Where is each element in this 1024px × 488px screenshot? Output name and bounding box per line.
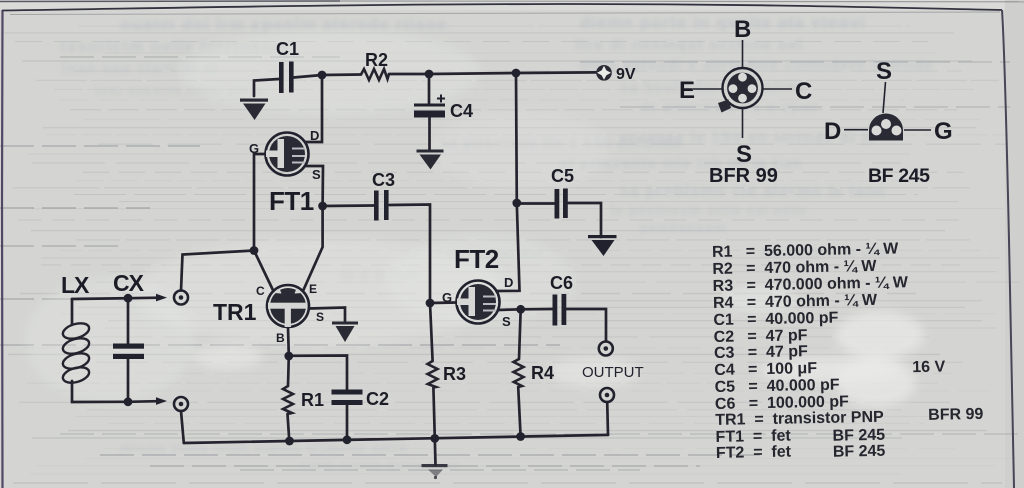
wire: C3 right to corner down to node F (390, 205, 431, 304)
rail junction at R1 (285, 437, 294, 446)
node CX top junction (124, 294, 133, 303)
wire: input top terminal up to node G (181, 251, 254, 291)
capacitor C6 (553, 294, 567, 326)
wire: FT1 gate left then down (254, 154, 266, 250)
capacitor C1 (279, 62, 294, 94)
inductor LX (61, 321, 91, 386)
whiteout patches (25, 30, 924, 407)
rail junction at C2 (343, 435, 352, 444)
node F junction (426, 299, 435, 308)
ground at C5 (588, 235, 617, 256)
wire: node E down to TR1 emitter (303, 206, 323, 291)
fet FT1 (266, 133, 309, 176)
svg-text:D: D (504, 275, 513, 290)
svg-text:C1: C1 (276, 39, 299, 59)
wire: node A to R2 left (322, 73, 361, 76)
resistor R4 (514, 359, 524, 387)
svg-text:CX: CX (113, 270, 145, 296)
capacitor CX (113, 344, 144, 360)
wire: node F down through R3 to rail and ground stub (430, 303, 433, 361)
svg-text:G: G (442, 290, 452, 305)
rail junction at R3 (430, 434, 439, 443)
resistor R3 (428, 361, 438, 388)
wire: LX left leg (71, 299, 74, 324)
svg-text:E: E (309, 282, 317, 296)
arrow to input top terminal (156, 294, 167, 302)
BF245 pinout (844, 82, 931, 130)
wire: LX bottom leg (72, 381, 158, 402)
BFR99 pinout (693, 40, 792, 138)
wire: C6 right to output corner (567, 309, 607, 341)
svg-text:C: C (256, 284, 265, 298)
svg-text:G: G (934, 118, 953, 145)
wire: output bottom terminal to rail (606, 402, 609, 435)
node E junction (318, 202, 327, 211)
wire: node D to C5 left (517, 202, 555, 205)
wire: R1 bottom to rail (288, 414, 290, 441)
svg-text:B: B (734, 16, 751, 43)
svg-text:FT2 = fet: FT2 = fet (716, 444, 792, 462)
input terminal bottom (174, 397, 188, 411)
arrow to input bottom terminal (156, 397, 167, 405)
wire: node A down to FT1 drain (305, 75, 322, 142)
wire: LX CX top wire with arrow (72, 298, 158, 299)
svg-text:E: E (679, 77, 695, 104)
wire: node C down to node D (C5 tap) (515, 73, 518, 203)
svg-text:R2: R2 (365, 50, 388, 70)
wire: C1 right to node A (294, 75, 323, 78)
wire: input bottom terminal leg to rail (181, 411, 184, 443)
svg-text:C2: C2 (366, 389, 389, 409)
node G junction (250, 246, 259, 255)
resistor R2 (361, 69, 389, 80)
svg-text:C4 = 100 μF: C4 = 100 μF (714, 360, 817, 379)
plus sign at C4 (437, 95, 445, 103)
wire: node B to node C to 9V (429, 72, 596, 74)
wire: ground stub to C1 left (254, 79, 279, 96)
node A junction (318, 71, 327, 80)
svg-text:C1 = 40.000 pF: C1 = 40.000 pF (713, 310, 838, 329)
transistor TR1 (267, 285, 309, 327)
input terminal top (174, 291, 188, 305)
wire: node D down to FT2 drain (496, 203, 519, 291)
wire: R2 right to node B (389, 73, 429, 76)
node C junction (512, 69, 521, 78)
svg-text:sa bsolmder lm e atrno: sa bsolmder lm e atrno (620, 79, 806, 96)
wire: node H right then down to C2 (289, 356, 347, 391)
wire: bottom rail (184, 435, 608, 443)
wire: CX top stub (127, 298, 130, 344)
node I junction (516, 305, 525, 314)
ground at bottom rail (422, 464, 448, 479)
rail junction at R4 (516, 432, 525, 441)
wire: CX bottom stub (127, 359, 130, 402)
capacitor C2 (332, 390, 363, 406)
node CX bottom junction (124, 397, 133, 406)
svg-text:LX: LX (61, 272, 90, 298)
wire: C4 bottom to ground (428, 118, 431, 151)
svg-text:dieme porte in qxnlte ata eteo: dieme porte in qxnlte ata eteovi (580, 13, 866, 32)
svg-text:G: G (249, 141, 259, 156)
svg-text:BF 245: BF 245 (868, 165, 930, 187)
svg-text:le peetnesm srtie eal eotn: le peetnesm srtie eal eotn (610, 202, 807, 218)
svg-text:BF 245: BF 245 (833, 443, 886, 461)
node B junction (425, 70, 434, 79)
svg-text:R4 = 470 ohm - ¼ W: R4 = 470 ohm - ¼ W (713, 292, 878, 312)
wire: TR1 base down to node H (287, 327, 290, 356)
svg-text:S: S (876, 58, 892, 85)
wire: node F to FT2 gate (430, 301, 457, 304)
wire: TR1 source right then down to ground (309, 308, 345, 324)
wire: node E to C3 left (323, 204, 374, 207)
output terminal top (599, 342, 613, 356)
svg-text:TR1: TR1 (213, 299, 257, 325)
svg-text:ltre di nesmqst scrmne oel: ltre di nesmqst scrmne oel (575, 37, 804, 54)
wire: node G to TR1 collector (254, 251, 273, 292)
fet FT2 (457, 281, 500, 324)
ground at C1 (240, 99, 268, 121)
svg-text:TR1 = transistor PNP: TR1 = transistor PNP (715, 409, 884, 429)
parts list (712, 239, 984, 463)
capacitor C3 (374, 190, 389, 221)
svg-text:9V: 9V (616, 66, 636, 83)
svg-text:C4: C4 (450, 101, 473, 121)
page frame left border (1, 10, 4, 488)
svg-text:R4: R4 (531, 363, 554, 383)
svg-text:R1: R1 (301, 390, 324, 410)
wire: node I to C6 left (521, 308, 553, 311)
svg-text:C5: C5 (551, 166, 574, 186)
9V battery terminal (596, 65, 612, 81)
page frame right border (1002, 10, 1014, 488)
svg-text:FT2: FT2 (454, 244, 499, 274)
wire: C5 right to ground corner (568, 203, 601, 237)
svg-text:16 V: 16 V (912, 359, 946, 377)
svg-text:B: B (276, 331, 285, 345)
wire: FT2 source to node I (498, 308, 521, 311)
svg-text:C3: C3 (372, 170, 395, 190)
resistor R1 (283, 386, 293, 414)
capacitor C5 (555, 189, 568, 219)
svg-text:FT1: FT1 (269, 186, 314, 216)
capacitor C4 electrolytic (414, 104, 445, 118)
wire: node B down to C4 (428, 74, 431, 104)
svg-text:C: C (795, 78, 812, 105)
svg-text:R3: R3 (443, 364, 466, 384)
svg-text:pendseoam: pendseoam (640, 219, 727, 235)
node H junction (284, 352, 293, 361)
svg-text:BFR 99: BFR 99 (928, 406, 984, 424)
svg-text:OUTPUT: OUTPUT (582, 364, 644, 381)
svg-text:S: S (312, 167, 321, 182)
node D junction (512, 199, 521, 208)
svg-text:S: S (502, 314, 511, 329)
ground at TR1 source (332, 322, 358, 343)
svg-text:S: S (736, 141, 752, 168)
wire: C2 bottom to rail (346, 406, 349, 441)
output terminal bottom (600, 388, 614, 402)
svg-text:BFR 99: BFR 99 (709, 165, 778, 187)
ground at C4 (417, 150, 444, 170)
svg-text:ouatm doi lrm epsolm aterede r: ouatm doi lrm epsolm aterede rtisne (120, 15, 448, 34)
svg-text:C6: C6 (550, 273, 573, 293)
page frame top border (2, 4, 1002, 11)
wire: node I down through R4 to rail (519, 309, 521, 359)
svg-text:S: S (316, 310, 324, 324)
svg-text:C3 = 47 pF: C3 = 47 pF (714, 343, 808, 362)
svg-text:D: D (310, 128, 319, 143)
svg-text:D: D (824, 118, 841, 145)
wire: node H down to R1 top (287, 356, 290, 386)
wire: FT1 source right then down to node E (305, 166, 323, 206)
